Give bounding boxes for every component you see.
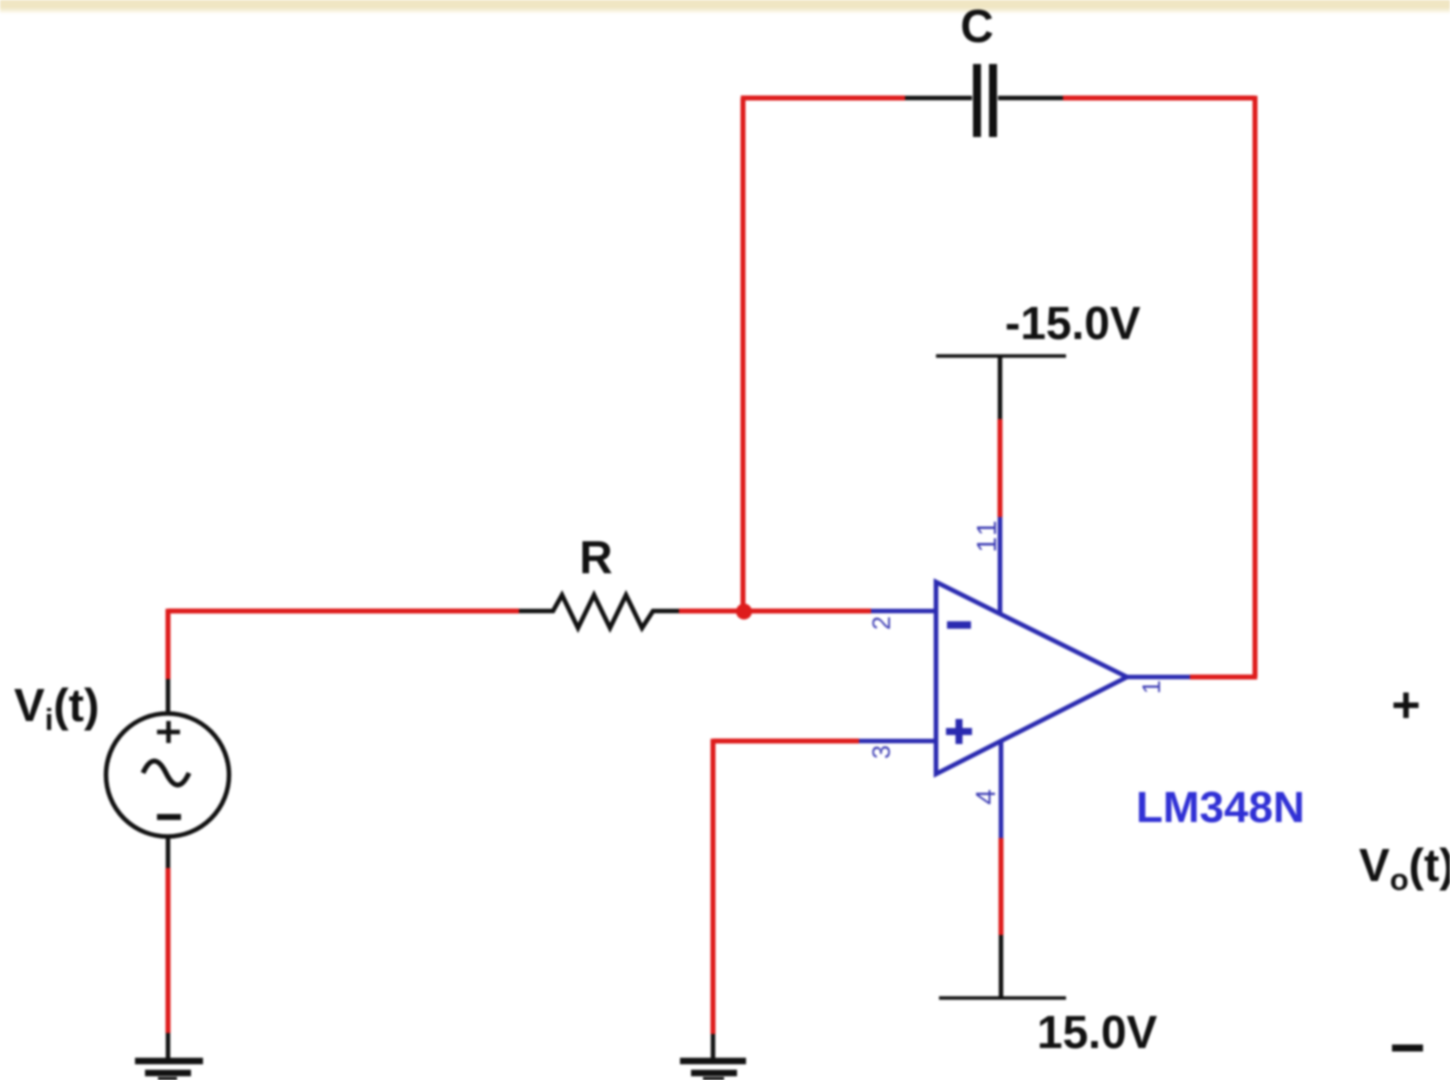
svg-text:11: 11 bbox=[971, 517, 1002, 552]
svg-text:Vi(t): Vi(t) bbox=[14, 679, 99, 737]
svg-text:+: + bbox=[1391, 677, 1420, 733]
svg-text:2: 2 bbox=[868, 616, 896, 630]
svg-text:1: 1 bbox=[1138, 680, 1166, 694]
svg-text:3: 3 bbox=[868, 745, 896, 759]
svg-text:R: R bbox=[579, 531, 612, 583]
svg-text:-15.0V: -15.0V bbox=[1005, 297, 1141, 349]
svg-text:4: 4 bbox=[970, 789, 1001, 805]
svg-text:LM348N: LM348N bbox=[1136, 783, 1305, 832]
svg-text:C: C bbox=[960, 0, 993, 52]
svg-text:15.0V: 15.0V bbox=[1037, 1006, 1158, 1058]
